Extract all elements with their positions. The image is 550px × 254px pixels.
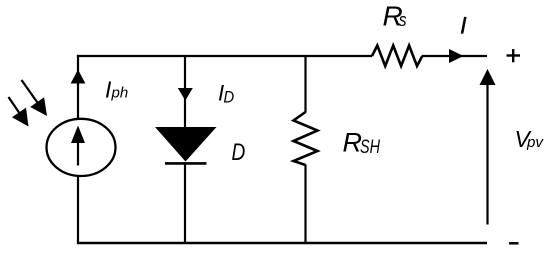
current source U1 (photocurrent source): [47, 119, 116, 176]
label Iph: [105, 77, 128, 103]
wire: shunt branch upper: [304, 56, 306, 113]
svg-text:D: D: [232, 139, 246, 166]
light ray arrow 1: [22, 80, 48, 116]
label Rs: [383, 0, 407, 31]
svg-text:s: s: [399, 10, 407, 30]
svg-text:ph: ph: [111, 85, 129, 102]
arrowhead I current direction: [449, 49, 464, 63]
Vpv measurement arrow: [480, 69, 496, 225]
wire: bottom rail: [77, 242, 487, 245]
wire: diode branch upper: [184, 56, 186, 128]
wire: shunt branch lower: [304, 165, 306, 245]
arrowhead Iph current direction: [71, 70, 86, 84]
svg-text:I: I: [460, 12, 467, 39]
wire: diode branch lower: [184, 165, 186, 245]
svg-text:SH: SH: [360, 137, 380, 158]
svg-text:D: D: [224, 88, 235, 107]
label Vpv: [515, 126, 545, 152]
resistor Rs: [372, 46, 422, 67]
wire: top rail: [77, 55, 372, 57]
label ID: [218, 81, 234, 107]
arrowhead ID current direction: [178, 88, 193, 101]
wire: left branch upper: [77, 55, 79, 120]
wire: top rail right of Rs: [422, 55, 487, 57]
light ray arrow 2: [9, 97, 29, 127]
wire: left branch lower: [77, 176, 79, 244]
minus terminal sign: [509, 242, 519, 245]
svg-text:pv: pv: [526, 134, 545, 151]
diode D: [155, 127, 217, 163]
plus terminal sign: [507, 49, 521, 62]
resistor RSH: [294, 112, 318, 165]
label RSH: [343, 128, 381, 159]
